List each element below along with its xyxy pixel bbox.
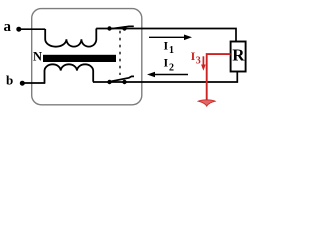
gang link dashed between S1 and S2	[119, 31, 121, 75]
svg-text:2: 2	[169, 63, 174, 74]
wire a to top winding	[19, 28, 45, 30]
switch S1 lever	[111, 26, 134, 29]
ground symbol (red)	[198, 100, 215, 106]
svg-text:R: R	[232, 46, 245, 65]
enclosure box	[32, 9, 142, 105]
node a junction dot	[16, 27, 21, 32]
resistor R body	[231, 42, 246, 72]
switch S2 contact dot left	[107, 80, 111, 84]
core bar N	[43, 55, 116, 62]
svg-text:I: I	[164, 39, 169, 53]
svg-text:a: a	[4, 19, 12, 35]
node b junction dot	[20, 81, 25, 86]
wire bottom rail from winding through switch S2 to resistor bottom	[93, 71, 237, 82]
svg-text:I: I	[164, 55, 169, 69]
wire b to bottom winding	[22, 82, 45, 84]
inductor L1 bottom winding	[45, 64, 94, 82]
switch S2 contact dot right	[122, 80, 126, 84]
switch S1 contact dot right	[122, 26, 126, 30]
current arrow I1	[149, 36, 185, 38]
red wire: resistor node to ground	[207, 54, 231, 100]
svg-text:b: b	[6, 73, 13, 88]
svg-text:1: 1	[169, 45, 174, 56]
svg-text:N: N	[33, 49, 42, 63]
current arrow I3 (red, annotation beside wire)	[202, 56, 204, 65]
inductor L1 top winding	[45, 29, 96, 47]
current arrow I2	[154, 74, 188, 76]
switch S1 contact dot left	[107, 26, 111, 30]
switch S2 lever	[111, 76, 135, 81]
svg-text:3: 3	[196, 55, 201, 66]
wire top rail from winding through switch S1 to resistor	[96, 29, 236, 42]
